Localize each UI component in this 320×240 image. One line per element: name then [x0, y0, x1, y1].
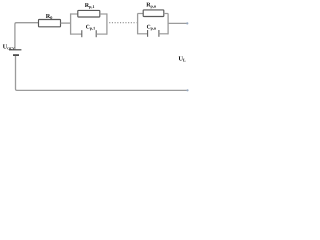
dashed link between networks	[109, 22, 136, 24]
svg-text:R0: R0	[46, 13, 53, 20]
capacitor Cpn left plate	[147, 30, 149, 37]
svg-text:Cp,1: Cp,1	[86, 25, 95, 31]
svg-text:UOCV: UOCV	[3, 43, 16, 50]
wire RC2 top-right	[164, 13, 168, 15]
RC1 right bar	[106, 13, 108, 34]
wire R0 to RC1	[61, 22, 71, 24]
wire RC2 top-left	[138, 13, 144, 15]
svg-text:Rp,1: Rp,1	[85, 3, 95, 9]
wire RC1 bottom-right	[96, 33, 107, 35]
wire RC2 bottom-left	[138, 33, 148, 35]
svg-text:Cp,n: Cp,n	[147, 24, 157, 30]
wire RC1 top-right	[100, 13, 107, 15]
terminal dot bottom right	[186, 89, 188, 91]
terminal dot top right	[186, 22, 188, 24]
RC1 left bar	[70, 13, 72, 34]
resistor Rp1 box	[78, 10, 100, 17]
wire: battery down to bottom rail	[16, 56, 187, 91]
resistor R0 box	[39, 20, 61, 27]
RC2 left bar	[137, 13, 139, 34]
wire RC1 bottom-left	[71, 33, 82, 35]
voltage source U_ocv bottom plate	[13, 54, 19, 56]
voltage source U_ocv top plate	[9, 49, 21, 51]
svg-text:Rp,n: Rp,n	[146, 3, 157, 9]
capacitor Cpn right plate	[158, 30, 160, 37]
resistor Rpn box	[143, 10, 164, 17]
svg-text:UL: UL	[178, 55, 186, 62]
RC2 right bar	[167, 13, 169, 34]
capacitor Cp1 right plate	[95, 30, 97, 37]
wire RC2 bottom-right	[159, 33, 168, 35]
capacitor Cp1 left plate	[81, 30, 83, 37]
output wire to terminal	[168, 22, 187, 24]
wire RC1 top-left	[71, 13, 78, 15]
wire: top-left corner to R0	[15, 23, 39, 50]
